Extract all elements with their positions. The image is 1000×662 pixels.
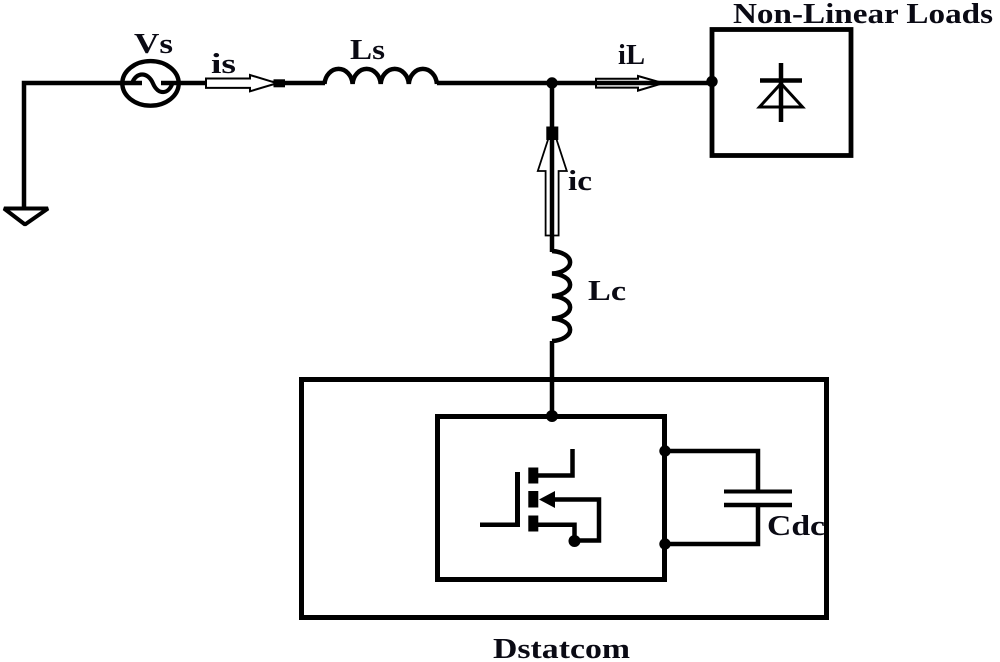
svg-text:Cdc: Cdc <box>767 510 825 542</box>
ground <box>4 209 48 225</box>
capacitor Cdc top plate <box>724 490 792 494</box>
transistor channel bar bottom <box>528 516 538 532</box>
node source junction <box>569 535 581 547</box>
non-linear loads box <box>712 30 851 156</box>
transistor source lead <box>538 525 575 541</box>
wire source to Ls <box>161 81 325 86</box>
wire: ground up to source and across to Ls <box>24 83 142 207</box>
wire Lc down into Dstatcom <box>550 341 555 416</box>
svg-text:is: is <box>211 48 236 80</box>
transistor channel bar middle <box>528 491 538 508</box>
svg-text:Ls: Ls <box>350 34 385 66</box>
node converter dc minus <box>659 538 670 549</box>
svg-text:Vs: Vs <box>134 28 173 60</box>
capacitor Cdc bottom plate <box>724 503 792 508</box>
wire converter to capacitor top <box>665 451 758 491</box>
outer box Dstatcom <box>302 380 827 618</box>
node at load box input <box>706 76 717 87</box>
node converter dc plus <box>659 445 670 456</box>
svg-text:Dstatcom: Dstatcom <box>493 633 630 662</box>
inner converter box <box>438 417 665 580</box>
AC source Vs <box>122 61 178 106</box>
svg-text:ic: ic <box>568 165 592 197</box>
diode in load box <box>760 63 803 122</box>
current arrow ic <box>538 127 567 236</box>
inductor Lc <box>552 251 570 341</box>
transistor gate lead <box>480 522 518 527</box>
transistor gate line <box>515 472 520 527</box>
transistor body arrow <box>539 491 555 508</box>
node converter input <box>546 410 558 422</box>
current arrow iL <box>596 76 663 91</box>
transistor drain lead <box>538 449 573 476</box>
transistor channel bar top <box>528 468 538 484</box>
node PCC junction <box>546 77 557 88</box>
current arrow is <box>206 75 285 91</box>
inductor Ls <box>325 69 437 84</box>
wire Ls to load box <box>437 81 712 86</box>
svg-text:Lc: Lc <box>588 275 626 307</box>
svg-text:iL: iL <box>618 39 645 71</box>
wire capacitor bottom to converter <box>665 505 758 544</box>
transistor body lead <box>555 500 599 541</box>
svg-text:Non-Linear Loads: Non-Linear Loads <box>733 0 993 30</box>
wire PCC down to Lc <box>550 83 555 252</box>
